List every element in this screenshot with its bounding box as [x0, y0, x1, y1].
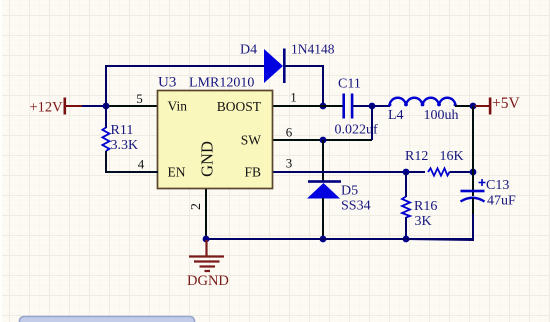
inductor L4	[390, 98, 456, 106]
wire D5 anode to ground rail	[322, 198, 324, 239]
svg-text:3: 3	[286, 156, 293, 171]
resistor R12	[428, 168, 450, 175]
node C11-L4-SW junction	[369, 103, 376, 110]
wire riser to C13 top plate	[472, 172, 474, 196]
node D5-ground junction	[320, 236, 327, 243]
svg-text:3K: 3K	[415, 214, 432, 229]
capacitor C11	[342, 94, 353, 119]
node +5V junction	[470, 103, 477, 110]
power port +12V	[30, 98, 84, 116]
resistor R16	[402, 197, 410, 218]
wire SW node down to D5 cathode	[322, 140, 324, 182]
wire input node to pin 5 (Vin)	[106, 105, 158, 107]
wire top rail to D4 anode	[105, 65, 265, 67]
node BOOST junction	[320, 103, 327, 110]
wire SW riser to C11 output	[371, 105, 373, 140]
svg-text:SW: SW	[241, 133, 262, 148]
wire C13 to ground rail corner	[472, 198, 474, 216]
svg-text:EN: EN	[168, 165, 186, 180]
svg-text:SS34: SS34	[341, 199, 371, 214]
svg-text:47uF: 47uF	[487, 194, 516, 209]
svg-text:LMR12010: LMR12010	[189, 76, 254, 91]
svg-text:C11: C11	[338, 77, 361, 92]
node output-C13 junction	[470, 169, 477, 176]
node input junction	[103, 103, 110, 110]
wire input node up to top rail	[105, 65, 107, 106]
svg-text:16K: 16K	[440, 149, 464, 164]
svg-text:BOOST: BOOST	[217, 99, 262, 114]
tooltip fragment bottom left	[20, 317, 195, 322]
svg-text:D5: D5	[341, 184, 358, 199]
node SW-D5 junction	[320, 137, 327, 144]
svg-text:2: 2	[189, 203, 204, 210]
svg-text:5: 5	[136, 91, 143, 106]
wire FB pin 3	[272, 171, 425, 173]
node FB junction	[403, 169, 410, 176]
svg-text:1N4148: 1N4148	[291, 42, 335, 57]
left white edge	[0, 0, 2, 322]
svg-text:100uh: 100uh	[424, 108, 459, 123]
node R16-ground junction	[403, 236, 410, 243]
wire L4 to +5V node	[455, 105, 474, 107]
capacitor C13	[461, 179, 486, 202]
svg-text:L4: L4	[388, 108, 404, 123]
svg-text:+12V: +12V	[30, 100, 64, 116]
svg-text:1: 1	[290, 90, 297, 105]
svg-text:GND: GND	[198, 141, 217, 177]
wire ground rail	[206, 238, 473, 240]
wire SW pin 6	[272, 139, 372, 141]
svg-text:+5V: +5V	[492, 95, 520, 112]
IC U3 body	[158, 91, 273, 189]
svg-text:4: 4	[138, 157, 145, 172]
svg-text:Vin: Vin	[168, 99, 188, 114]
svg-text:C13: C13	[486, 178, 509, 193]
wire +12V to input node	[82, 105, 106, 107]
svg-text:6: 6	[286, 125, 293, 140]
wire +5V riser	[472, 106, 474, 172]
wire D4 cathode to corner	[285, 66, 323, 106]
wire R11 top	[105, 106, 107, 128]
wire R16 top	[405, 172, 407, 197]
power port +5V	[475, 95, 520, 115]
wire R16 bottom to ground rail	[405, 217, 407, 239]
wire R12 to output riser	[450, 171, 474, 173]
wire GND pin 2	[205, 189, 207, 239]
svg-text:3.3K: 3.3K	[111, 138, 139, 153]
svg-text:U3: U3	[158, 75, 176, 91]
wire C11 to SW node	[353, 105, 390, 107]
svg-text:FB: FB	[244, 165, 261, 180]
wire BOOST pin 1 to C11	[272, 105, 343, 107]
svg-text:R16: R16	[414, 199, 437, 214]
wire C13 lower to ground rail	[406, 214, 473, 240]
resistor R11	[102, 128, 109, 152]
svg-text:R12: R12	[405, 149, 428, 164]
inductor L4 cusp nubs	[388, 103, 457, 107]
diode D5	[307, 180, 341, 198]
ground DGND	[189, 240, 224, 271]
svg-text:D4: D4	[240, 43, 257, 58]
node GND junction	[203, 236, 210, 243]
wire R11 bottom to EN pin 4	[106, 151, 158, 172]
diode D4	[264, 49, 286, 84]
svg-text:R11: R11	[111, 123, 134, 138]
svg-text:DGND: DGND	[187, 273, 229, 289]
